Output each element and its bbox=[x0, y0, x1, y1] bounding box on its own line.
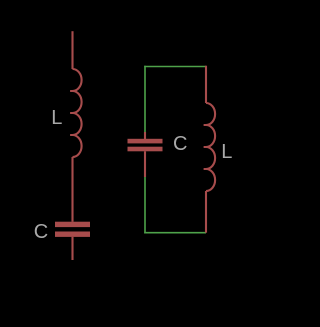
inductor L (parallel loop) bbox=[204, 103, 216, 191]
capacitor C (series branch) bottom plate bbox=[55, 232, 90, 237]
wire right upper of parallel loop bbox=[205, 66, 207, 103]
wire bottom lead of series branch bbox=[71, 237, 73, 260]
svg-text:C: C bbox=[34, 221, 48, 243]
wire left upper of parallel loop bbox=[144, 66, 146, 132]
wire bottom of parallel loop bbox=[144, 232, 206, 234]
wire left lower of parallel loop bbox=[144, 177, 146, 234]
capacitor C (parallel loop) bottom lead bbox=[144, 151, 146, 177]
svg-text:C: C bbox=[173, 133, 187, 155]
wire right lower of parallel loop bbox=[205, 191, 207, 233]
wire top of parallel loop bbox=[144, 66, 206, 68]
capacitor C (parallel loop) top lead bbox=[144, 132, 146, 139]
capacitor C (parallel loop) top plate bbox=[128, 139, 163, 144]
capacitor C (parallel loop) bottom plate bbox=[128, 147, 163, 152]
inductor L (series branch) bbox=[70, 69, 82, 157]
wire top lead of series branch bbox=[71, 31, 73, 69]
svg-text:L: L bbox=[221, 141, 232, 163]
wire between L and C (series branch) bbox=[71, 157, 73, 222]
capacitor C (series branch) top plate bbox=[55, 222, 90, 227]
svg-text:L: L bbox=[51, 107, 62, 129]
